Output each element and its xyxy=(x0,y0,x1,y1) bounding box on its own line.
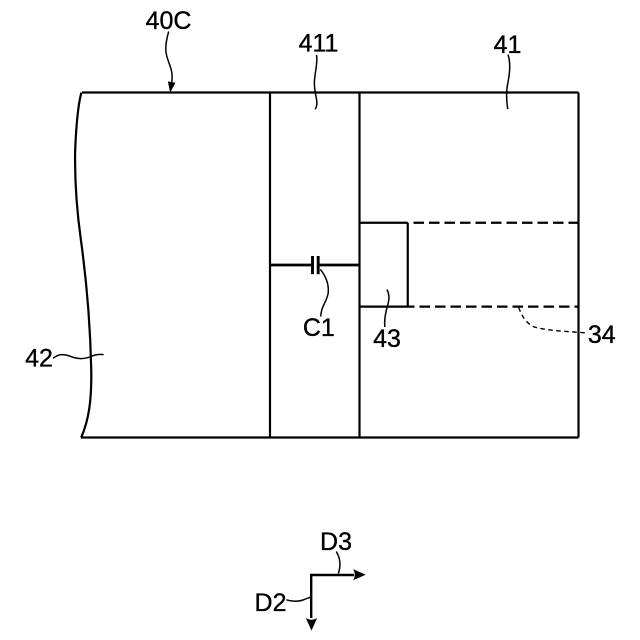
capacitor C1 left plate xyxy=(311,256,314,274)
svg-text:43: 43 xyxy=(373,325,401,353)
axis D2 arrowhead xyxy=(306,618,317,631)
svg-text:40C: 40C xyxy=(146,7,192,35)
bottom edge of region 40C xyxy=(81,436,579,438)
leader C1 xyxy=(320,269,328,316)
axis D2 arrow (vertical) xyxy=(310,574,312,618)
hidden edge dashed top of layer 34 xyxy=(414,222,579,224)
capacitor C1 right lead xyxy=(320,264,361,267)
svg-text:C1: C1 xyxy=(303,314,335,342)
broken left edge of region 42 xyxy=(75,93,91,438)
svg-text:411: 411 xyxy=(299,30,339,58)
hidden edge dashed bottom of layer 34 xyxy=(420,306,579,308)
svg-text:42: 42 xyxy=(25,345,53,373)
axis D3 arrowhead xyxy=(353,569,366,580)
right edge of region 41 xyxy=(577,93,579,438)
arrowhead 40C xyxy=(168,82,175,92)
leader 42 xyxy=(53,354,104,358)
wire: left boundary of strip 411 xyxy=(269,93,271,438)
axis D3 arrow (horizontal) xyxy=(311,574,354,576)
leader D3 xyxy=(336,552,340,574)
leader D2 xyxy=(286,597,310,601)
capacitor C1 right plate xyxy=(317,256,320,274)
leader 411 xyxy=(314,55,317,109)
electrode 43 bottom edge xyxy=(360,306,415,308)
electrode 43 top edge xyxy=(360,222,408,224)
leader 40C xyxy=(166,32,172,84)
capacitor C1 left lead xyxy=(269,264,311,267)
svg-text:41: 41 xyxy=(494,31,522,59)
electrode 43 right edge xyxy=(407,223,409,307)
svg-text:34: 34 xyxy=(588,321,616,349)
svg-text:D2: D2 xyxy=(255,589,287,617)
leader 43 xyxy=(385,290,389,328)
leader 41 xyxy=(507,55,510,110)
top edge of region 40C xyxy=(82,91,579,93)
wire: right boundary of strip 411 xyxy=(358,93,360,438)
dashed leader 34 xyxy=(519,308,588,334)
